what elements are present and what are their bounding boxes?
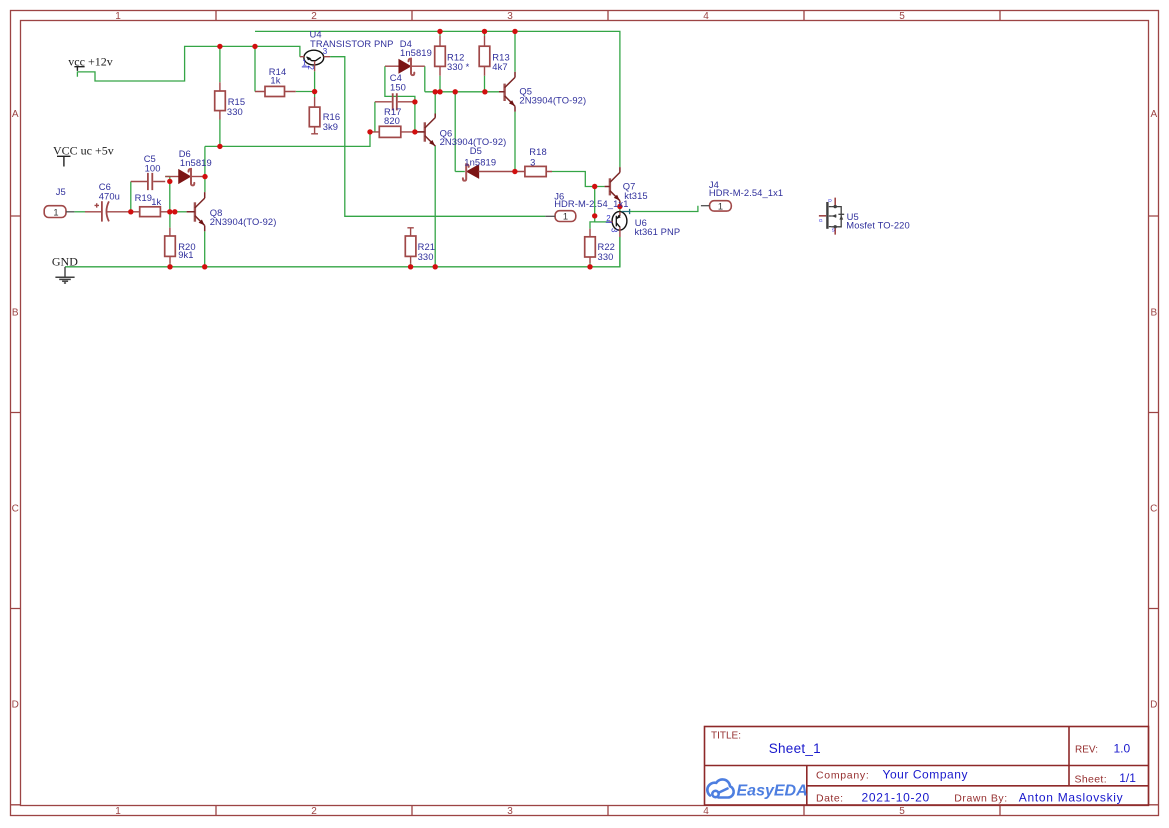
svg-text:R19: R19 xyxy=(135,192,153,203)
svg-text:9k1: 9k1 xyxy=(178,249,193,260)
svg-text:A: A xyxy=(12,109,19,120)
svg-text:Company:: Company: xyxy=(816,770,869,782)
svg-text:A: A xyxy=(1150,109,1157,120)
svg-text:5: 5 xyxy=(899,806,905,817)
svg-text:1: 1 xyxy=(115,806,121,817)
svg-text:C: C xyxy=(12,504,19,515)
svg-text:4: 4 xyxy=(703,11,709,22)
svg-text:Drawn By:: Drawn By: xyxy=(954,793,1007,805)
svg-text:1n5819: 1n5819 xyxy=(400,47,432,58)
svg-text:EasyEDA: EasyEDA xyxy=(737,783,808,800)
svg-text:1: 1 xyxy=(53,207,58,217)
svg-text:100: 100 xyxy=(145,162,161,173)
svg-text:470u: 470u xyxy=(99,190,120,201)
svg-text:330 *: 330 * xyxy=(447,61,470,72)
svg-text:REV:: REV: xyxy=(1075,745,1098,756)
svg-text:Anton Maslovskiy: Anton Maslovskiy xyxy=(1019,791,1124,805)
svg-text:1k: 1k xyxy=(151,196,161,207)
svg-text:2N3904(TO-92): 2N3904(TO-92) xyxy=(210,216,277,227)
svg-text:4k7: 4k7 xyxy=(492,61,507,72)
svg-text:Sheet:: Sheet: xyxy=(1075,773,1107,785)
svg-text:kt361 PNP: kt361 PNP xyxy=(635,226,681,237)
svg-text:HDR-M-2.54_1x1: HDR-M-2.54_1x1 xyxy=(554,198,628,209)
svg-text:Mosfet TO-220: Mosfet TO-220 xyxy=(846,220,909,231)
svg-text:HDR-M-2.54_1x1: HDR-M-2.54_1x1 xyxy=(709,187,783,198)
svg-text:1n5819: 1n5819 xyxy=(464,157,496,168)
svg-text:2: 2 xyxy=(311,11,317,22)
svg-text:GND: GND xyxy=(52,254,78,268)
svg-text:2: 2 xyxy=(306,65,315,70)
svg-text:1.0: 1.0 xyxy=(1114,742,1131,756)
svg-text:R18: R18 xyxy=(529,146,547,157)
svg-text:Your Company: Your Company xyxy=(883,768,969,782)
svg-text:J5: J5 xyxy=(56,186,66,197)
svg-text:D: D xyxy=(1150,700,1157,711)
svg-text:Date:: Date: xyxy=(816,792,844,804)
svg-text:S: S xyxy=(832,228,835,234)
svg-text:3: 3 xyxy=(507,806,513,817)
svg-text:2: 2 xyxy=(606,214,611,223)
svg-text:2021-10-20: 2021-10-20 xyxy=(862,790,930,804)
svg-text:4: 4 xyxy=(703,806,709,817)
svg-text:vcc +12v: vcc +12v xyxy=(68,55,112,69)
svg-text:1: 1 xyxy=(718,201,723,211)
svg-text:D: D xyxy=(12,700,19,711)
svg-text:5: 5 xyxy=(899,11,905,22)
svg-text:Sheet_1: Sheet_1 xyxy=(769,741,821,756)
svg-text:VCC uc +5v: VCC uc +5v xyxy=(53,144,114,158)
svg-text:150: 150 xyxy=(390,81,406,92)
svg-text:1k: 1k xyxy=(270,75,280,86)
svg-text:3k9: 3k9 xyxy=(323,121,338,132)
svg-text:G: G xyxy=(819,218,823,224)
svg-text:3: 3 xyxy=(610,228,619,233)
svg-text:C: C xyxy=(1150,504,1157,515)
svg-text:2N3904(TO-92): 2N3904(TO-92) xyxy=(519,95,586,106)
svg-text:1n5819: 1n5819 xyxy=(180,157,212,168)
svg-text:kt315: kt315 xyxy=(624,190,647,201)
svg-text:TITLE:: TITLE: xyxy=(711,731,741,742)
svg-text:3: 3 xyxy=(530,157,535,168)
svg-text:1/1: 1/1 xyxy=(1119,771,1136,785)
svg-text:B: B xyxy=(12,308,19,319)
svg-text:1: 1 xyxy=(115,11,121,22)
svg-text:330: 330 xyxy=(227,106,243,117)
svg-text:3: 3 xyxy=(507,11,513,22)
svg-text:1: 1 xyxy=(563,212,568,222)
svg-text:D5: D5 xyxy=(470,145,482,156)
svg-text:D: D xyxy=(828,198,832,204)
svg-text:330: 330 xyxy=(598,251,614,262)
svg-text:2: 2 xyxy=(311,806,317,817)
svg-text:3: 3 xyxy=(323,47,328,56)
svg-text:B: B xyxy=(1150,308,1157,319)
svg-text:330: 330 xyxy=(418,251,434,262)
svg-text:820: 820 xyxy=(384,115,400,126)
